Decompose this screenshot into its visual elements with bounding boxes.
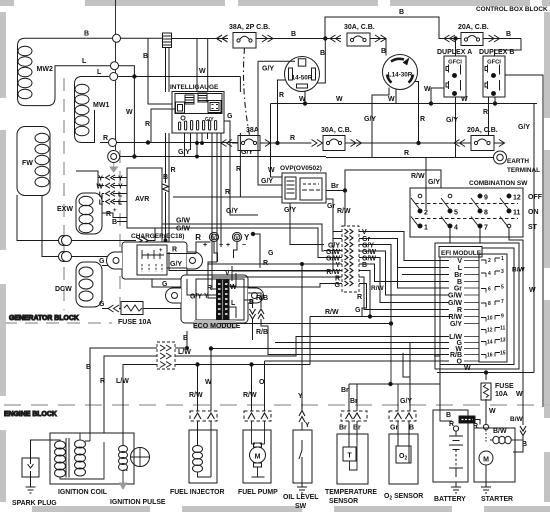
- svg-text:TEMPERATURE: TEMPERATURE: [325, 489, 377, 496]
- svg-text:G: G: [355, 307, 361, 314]
- svg-text:T: T: [347, 453, 352, 460]
- wire R from L14-30R: [415, 82, 419, 144]
- svg-text:OFF: OFF: [528, 194, 543, 201]
- gauge connector stack 2: [198, 93, 207, 102]
- battery: [433, 384, 468, 503]
- row y322: [220, 323, 391, 325]
- eco wire G/Y: [187, 279, 217, 295]
- svg-text:FUEL INJECTOR: FUEL INJECTOR: [170, 489, 225, 496]
- receptacle 14-50R: [285, 57, 320, 92]
- wire G from gauge: [224, 121, 258, 215]
- svg-text:12: 12: [513, 195, 521, 202]
- svg-text:W: W: [424, 86, 431, 93]
- wire W from L14-30R: [395, 89, 397, 103]
- svg-text:L: L: [231, 300, 236, 307]
- svg-text:R: R: [106, 211, 111, 218]
- wire L/W to pulse: [123, 365, 157, 431]
- bullet connector pair to AVR: [59, 236, 145, 262]
- battery to starter fuse link: [459, 416, 480, 430]
- wire W right edge: [533, 104, 535, 373]
- svg-text:12: 12: [487, 328, 493, 334]
- svg-text:O: O: [457, 359, 463, 366]
- neutral bond wire W: [120, 77, 134, 157]
- svg-text:B: B: [399, 9, 404, 16]
- svg-text:B: B: [362, 262, 367, 269]
- wire R bus: [232, 142, 312, 144]
- svg-text:GENERATOR BLOCK: GENERATOR BLOCK: [9, 315, 79, 322]
- svg-text:16: 16: [487, 353, 493, 359]
- svg-text:B/W: B/W: [512, 267, 526, 274]
- svg-text:B: B: [381, 48, 386, 55]
- earth ground symbol left: [108, 151, 120, 173]
- svg-text:B: B: [409, 425, 414, 432]
- svg-text:B/W: B/W: [493, 428, 507, 435]
- svg-text:R: R: [449, 421, 454, 428]
- svg-text:M: M: [483, 457, 489, 464]
- svg-text:INTELLIGAUGE: INTELLIGAUGE: [170, 84, 219, 91]
- svg-text:G: G: [162, 281, 168, 288]
- svg-text:4: 4: [454, 225, 458, 232]
- EFI module outer: [435, 243, 519, 369]
- wire B/W to solenoid loop: [513, 442, 523, 453]
- AVR input wires Y W L L with chevrons: [76, 171, 127, 210]
- svg-text:L/W: L/W: [116, 378, 129, 385]
- connector circle on B wire: [113, 34, 121, 42]
- svg-text:G/W: G/W: [176, 226, 190, 233]
- FW wires: [17, 195, 58, 257]
- svg-text:V: V: [362, 229, 367, 236]
- earth terminal: [494, 151, 541, 174]
- winding MW2: [18, 38, 111, 105]
- wire R corridor: [168, 133, 170, 168]
- svg-text:5: 5: [454, 210, 458, 217]
- connector circle on L wire: [111, 62, 119, 70]
- breaker 20A C.B. top: [439, 24, 521, 46]
- wire B gauge corridor: [165, 133, 167, 170]
- svg-text:−: −: [219, 242, 223, 249]
- fuse 10A: [118, 302, 151, 327]
- svg-text:M: M: [255, 454, 261, 461]
- svg-text:5: 5: [501, 285, 504, 291]
- switch position labels: [528, 194, 543, 231]
- svg-text:IGNITION PULSE: IGNITION PULSE: [110, 499, 166, 506]
- svg-text:Br: Br: [339, 425, 347, 432]
- svg-text:CONTROL BOX BLOCK: CONTROL BOX BLOCK: [476, 6, 548, 13]
- wire W drop to OVP: [271, 104, 283, 178]
- wire Br from OVP: [326, 190, 345, 192]
- row W: [211, 349, 449, 412]
- svg-text:L: L: [99, 200, 104, 207]
- svg-text:OIL LEVEL: OIL LEVEL: [283, 494, 318, 501]
- charger mounting plate: [107, 242, 203, 279]
- svg-text:11: 11: [500, 326, 506, 332]
- wire B to 14-50R: [290, 39, 325, 84]
- svg-text:R: R: [457, 307, 462, 314]
- W bus: [271, 103, 538, 105]
- ignition pulse: [110, 430, 166, 506]
- W bus under EFI: [437, 372, 534, 374]
- eco wire W: [230, 273, 237, 286]
- generator block boundary: [4, 78, 120, 323]
- wire B to duplex A: [455, 39, 457, 57]
- svg-text:G: G: [268, 250, 274, 257]
- switch column 1: [411, 194, 428, 231]
- wire R from duplex B: [488, 97, 490, 143]
- fuse 10A right: [481, 383, 514, 400]
- svg-text:R/B: R/B: [256, 295, 268, 302]
- svg-text:W: W: [489, 408, 496, 415]
- wire B to ignition: [90, 331, 187, 433]
- svg-text:10: 10: [487, 316, 493, 322]
- row O: [265, 361, 450, 411]
- svg-text:DCW: DCW: [55, 286, 72, 293]
- svg-text:B: B: [86, 364, 91, 371]
- svg-text:L: L: [118, 192, 123, 199]
- svg-text:Y: Y: [118, 176, 123, 183]
- svg-text:−: −: [242, 242, 246, 249]
- svg-text:7: 7: [501, 299, 504, 305]
- gauge top feed wires: [166, 48, 170, 93]
- wire R from 14-50R: [278, 80, 286, 143]
- svg-text:R: R: [195, 233, 201, 242]
- svg-text:+: +: [226, 242, 230, 249]
- svg-text:38A: 38A: [246, 127, 259, 134]
- svg-text:R: R: [290, 135, 295, 142]
- eco wire V: [231, 266, 233, 281]
- gauge right plug: [208, 101, 221, 113]
- wire W from duplex A: [431, 88, 444, 104]
- left engine connector strip: [157, 342, 175, 369]
- svg-text:SW: SW: [295, 503, 307, 510]
- wire B drop to L14-30R: [385, 39, 387, 56]
- wire G/Y right edge: [505, 75, 543, 407]
- wire G/Y from 14-50R to OVP: [258, 61, 282, 185]
- wire R/B from eco: [248, 293, 261, 308]
- EFI wire stubs to pins: [464, 261, 479, 362]
- svg-text:B: B: [446, 412, 451, 419]
- svg-text:1: 1: [424, 225, 428, 232]
- svg-text:W: W: [388, 96, 395, 103]
- wire contact4 down: [449, 228, 451, 243]
- svg-text:IGNITION COIL: IGNITION COIL: [58, 489, 107, 496]
- svg-text:L14-30R: L14-30R: [388, 72, 413, 79]
- svg-text:R/W: R/W: [411, 173, 425, 180]
- svg-text:R/W: R/W: [189, 392, 203, 399]
- svg-text:R/W: R/W: [371, 285, 385, 292]
- svg-text:R: R: [103, 135, 108, 142]
- svg-text:MW2: MW2: [37, 66, 53, 73]
- svg-text:Y: Y: [244, 233, 250, 242]
- svg-text:ECO MODULE: ECO MODULE: [193, 323, 241, 330]
- wire G fuse to charger: [143, 279, 186, 309]
- svg-text:W: W: [96, 184, 103, 191]
- svg-text:V: V: [225, 270, 230, 277]
- wire G/Y earth bus: [120, 157, 493, 158]
- svg-text:8: 8: [484, 210, 488, 217]
- svg-text:EFI MODULE: EFI MODULE: [441, 250, 482, 257]
- svg-text:G/Y: G/Y: [446, 117, 458, 124]
- svg-text:B: B: [112, 219, 117, 226]
- svg-text:W: W: [205, 379, 212, 386]
- svg-text:B: B: [506, 31, 511, 38]
- svg-text:1: 1: [501, 256, 504, 262]
- EFI wire labels: [448, 258, 463, 366]
- wire R+ to AVR: [102, 213, 155, 241]
- wire B to duplex B: [495, 39, 522, 57]
- intelligauge outer box: [172, 92, 224, 134]
- svg-text:W: W: [199, 68, 206, 75]
- svg-text:B: B: [249, 299, 254, 306]
- fuel pump: [238, 421, 278, 496]
- duplex A GFCI: [437, 49, 472, 97]
- temperature sensor connector: [339, 411, 367, 432]
- svg-text:EARTH: EARTH: [507, 158, 529, 165]
- chevron B down: [250, 309, 256, 319]
- DC terminal R: [195, 232, 223, 249]
- gauge connector stack 1: [185, 95, 194, 104]
- wire Y to oil switch: [301, 264, 303, 411]
- intelligauge inner panel: [175, 94, 222, 114]
- svg-text:AVR: AVR: [135, 196, 149, 203]
- svg-text:Br: Br: [350, 398, 358, 405]
- starter: [474, 424, 527, 503]
- svg-text:15: 15: [500, 351, 506, 357]
- svg-text:G/Y: G/Y: [518, 124, 530, 131]
- sensor feed line: [349, 356, 440, 384]
- svg-text:ON: ON: [528, 209, 539, 216]
- svg-text:+: +: [159, 248, 163, 254]
- ECO pin bars: [217, 280, 230, 321]
- breaker 38A: [221, 127, 278, 151]
- svg-text:R/B: R/B: [256, 329, 268, 336]
- svg-text:MW1: MW1: [93, 102, 109, 109]
- connector circle on R wire: [109, 139, 117, 147]
- svg-text:B: B: [84, 31, 89, 38]
- wire R gauge to R bus: [151, 109, 175, 143]
- switch column 3: [471, 194, 488, 232]
- svg-text:4: 4: [488, 271, 491, 277]
- svg-text:R: R: [236, 166, 241, 173]
- svg-text:ST: ST: [528, 224, 538, 231]
- svg-text:OVP(OV0502): OVP(OV0502): [280, 165, 322, 172]
- winding DCW: [55, 262, 102, 307]
- svg-text:R/W: R/W: [448, 314, 462, 321]
- eco wire R: [212, 277, 217, 289]
- svg-text:DUPLEX A: DUPLEX A: [437, 49, 472, 56]
- receptacle L14-30R: [383, 55, 418, 90]
- fuel injector: [170, 421, 225, 496]
- svg-text:14-50R: 14-50R: [292, 75, 313, 82]
- OVP module: [280, 165, 326, 203]
- connector strip inline: [342, 226, 359, 292]
- svg-text:R/W: R/W: [325, 309, 339, 316]
- breaker 30A C.B. top: [325, 24, 386, 46]
- svg-text:Y: Y: [305, 422, 310, 429]
- svg-text:G: G: [99, 301, 105, 308]
- wire W from 14-50R: [304, 91, 306, 103]
- wire B from eco: [244, 300, 253, 308]
- svg-text:R: R: [171, 167, 176, 174]
- svg-text:G/Y: G/Y: [170, 261, 182, 268]
- wire B bus top: [172, 38, 229, 40]
- row R/W bottom: [175, 364, 310, 366]
- svg-text:R: R: [404, 150, 409, 157]
- svg-text:STARTER: STARTER: [481, 496, 513, 503]
- svg-text:V: V: [457, 258, 462, 265]
- gauge small circle: [181, 116, 185, 120]
- svg-text:7: 7: [484, 225, 488, 232]
- wire R horizontal to OVP: [239, 133, 241, 197]
- wire R from MW1: [100, 142, 108, 144]
- connector circle on MW1 L wire: [110, 73, 118, 81]
- strip left labels: [326, 243, 341, 290]
- svg-text:R: R: [145, 121, 150, 128]
- wire G/Y from charger: [167, 268, 187, 279]
- svg-text:G/Y: G/Y: [364, 116, 376, 123]
- breaker 20A C.B. bottom: [454, 127, 505, 151]
- winding EXW: [57, 193, 102, 234]
- breaker 30A C.B. bottom: [312, 127, 472, 151]
- spark plug: [12, 440, 57, 507]
- svg-text:SENSOR: SENSOR: [329, 498, 358, 505]
- svg-text:B: B: [320, 50, 325, 57]
- svg-text:L: L: [82, 58, 87, 65]
- winding FW: [17, 127, 50, 196]
- EFI module label: [439, 247, 482, 258]
- svg-text:G/Y: G/Y: [205, 117, 214, 123]
- svg-text:Y: Y: [118, 184, 123, 191]
- svg-text:+: +: [113, 208, 117, 214]
- fuel pump connector: [244, 411, 271, 421]
- oil level switch: [283, 403, 318, 510]
- svg-text:R/W: R/W: [243, 392, 257, 399]
- svg-text:W: W: [336, 96, 343, 103]
- svg-text:W: W: [529, 287, 536, 294]
- svg-text:L: L: [118, 200, 123, 207]
- svg-text:FW: FW: [22, 160, 33, 167]
- svg-text:6: 6: [488, 287, 491, 293]
- svg-text:Y: Y: [298, 393, 303, 400]
- svg-text:Y: Y: [98, 176, 103, 183]
- svg-text:G/W: G/W: [176, 218, 190, 225]
- svg-text:B/W: B/W: [510, 416, 524, 423]
- svg-text:R: R: [420, 116, 425, 123]
- svg-text:R: R: [225, 189, 230, 196]
- row R/W: [310, 317, 449, 365]
- wire L from MW1: [100, 76, 109, 78]
- svg-text:DUPLEX B: DUPLEX B: [479, 49, 514, 56]
- svg-text:EXW: EXW: [57, 206, 73, 213]
- svg-text:B: B: [183, 335, 188, 342]
- svg-text:B: B: [291, 31, 296, 38]
- svg-text:3: 3: [501, 269, 504, 275]
- chevron R/B: [258, 309, 264, 319]
- temperature sensor: [325, 421, 377, 505]
- wire contact 11 B/W: [509, 228, 523, 425]
- wire B drop from bus to gauge: [148, 39, 172, 105]
- svg-text:R: R: [483, 109, 488, 116]
- combination switch: [410, 180, 528, 237]
- gauge comb slots: [179, 121, 217, 131]
- svg-text:R: R: [357, 294, 362, 301]
- wire Gr from OVP: [326, 199, 333, 239]
- wire G below charger: [152, 279, 230, 287]
- winding MW1: [75, 77, 110, 143]
- svg-text:Gr: Gr: [327, 203, 335, 210]
- svg-text:FUEL PUMP: FUEL PUMP: [238, 489, 278, 496]
- svg-text:30A, C.B.: 30A, C.B.: [321, 127, 352, 134]
- breaker 38A 2P C.B.: [229, 24, 270, 48]
- switch column 4: [500, 194, 521, 228]
- eco wire L: [230, 307, 237, 318]
- gauge left plug: [176, 102, 185, 113]
- svg-text:Br: Br: [454, 272, 462, 279]
- wire W duplex B: [494, 97, 496, 104]
- svg-text:G/W: G/W: [448, 293, 462, 300]
- svg-text:TERMINAL: TERMINAL: [507, 167, 540, 174]
- ECO MODULE label: [194, 320, 236, 329]
- ignition coil: [50, 433, 134, 496]
- strip left feed wires: [232, 232, 342, 278]
- row R/B: [268, 326, 449, 355]
- svg-text:G: G: [227, 113, 233, 120]
- svg-text:Gr: Gr: [390, 425, 398, 432]
- svg-text:Gr: Gr: [454, 286, 462, 293]
- svg-text:G/Y: G/Y: [262, 66, 274, 73]
- crimp zigzag on B wire: [163, 184, 169, 192]
- svg-text:9: 9: [484, 195, 488, 202]
- DCW wires G to fuse: [102, 242, 133, 269]
- wire G/Y below OVP: [289, 203, 291, 210]
- gauge bottom drop wires: [185, 133, 222, 277]
- svg-text:20A, C.B.: 20A, C.B.: [458, 24, 489, 31]
- svg-text:ENGINE BLOCK: ENGINE BLOCK: [4, 411, 57, 418]
- svg-text:38A, 2P C.B.: 38A, 2P C.B.: [229, 24, 270, 31]
- svg-text:G/Y: G/Y: [190, 294, 202, 301]
- svg-text:30A, C.B.: 30A, C.B.: [344, 24, 375, 31]
- svg-text:W: W: [464, 365, 471, 372]
- svg-text:BATTERY: BATTERY: [434, 496, 466, 503]
- strip right labels: [362, 229, 376, 269]
- wire R from charger: [167, 253, 196, 255]
- chevron marks on AVR feed wires: [136, 237, 148, 244]
- svg-text:+: +: [203, 242, 207, 249]
- svg-text:FUSE: FUSE: [495, 383, 514, 390]
- svg-text:W: W: [516, 391, 523, 398]
- svg-text:14: 14: [487, 340, 493, 346]
- svg-text:L/W: L/W: [178, 349, 191, 356]
- wire R/W from OVP up to comb sw: [345, 170, 441, 211]
- svg-text:G/Y: G/Y: [428, 179, 440, 186]
- row L/W: [175, 337, 449, 357]
- wire R to ignition: [104, 356, 157, 442]
- svg-text:SPARK PLUG: SPARK PLUG: [12, 500, 57, 507]
- breaker linkage dash-dot: [243, 48, 249, 135]
- svg-text:FUSE 10A: FUSE 10A: [118, 319, 151, 326]
- svg-text:11: 11: [513, 210, 521, 217]
- EFI pin box: [479, 254, 507, 362]
- svg-text:G/Y: G/Y: [400, 398, 412, 405]
- switch column 2: [441, 194, 458, 231]
- svg-text:2: 2: [488, 258, 491, 264]
- svg-text:G: G: [99, 258, 105, 265]
- svg-text:20A, C.B.: 20A, C.B.: [467, 127, 498, 134]
- duplex B GFCI: [479, 49, 514, 97]
- svg-text:13: 13: [500, 338, 506, 344]
- svg-text:Br: Br: [331, 183, 339, 190]
- eco wire Y: [208, 262, 217, 298]
- svg-text:L: L: [97, 69, 102, 76]
